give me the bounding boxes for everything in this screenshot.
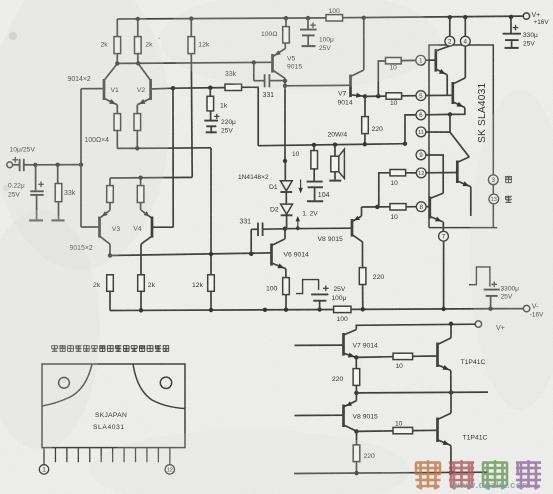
watermark dianqi ziliao [415, 460, 541, 489]
resistor R23 220 [332, 357, 360, 393]
pin 1 circle [416, 55, 436, 65]
scan edge smudges [3, 32, 93, 375]
label 0.22u 25V [8, 182, 25, 198]
wire V8 emitter to 10ohm pins [362, 205, 391, 209]
resistor R1 2k [101, 19, 121, 63]
resistor R9 2k V4 collector [138, 275, 156, 311]
node V5 collector dots [283, 79, 287, 88]
resistor R7 100ohm V4 emitter [137, 178, 144, 211]
transistor V2 9014 [137, 64, 173, 114]
label 10u/25V [10, 147, 36, 154]
node V7 emitter dot [363, 94, 367, 98]
resistor R16 10 to pin5 [386, 93, 416, 107]
transistor Q2 in IC [450, 46, 465, 114]
pin 12 circle [416, 168, 457, 178]
IC package hole right [160, 377, 171, 388]
pin 5 circle [416, 91, 453, 101]
IC package left curve [42, 364, 92, 406]
resistor R22 100 rail [334, 306, 351, 323]
resistor R12 33k feedback [225, 71, 242, 91]
capacitor 331 number2 [240, 218, 286, 254]
node V- rail dots [139, 307, 493, 313]
capacitor C2 0.22u/25V [30, 191, 44, 219]
node collector junction dots [115, 60, 256, 65]
label V+ sub [496, 325, 505, 332]
node 1k tap dot [208, 86, 212, 90]
label 1.2V [302, 211, 318, 218]
resistor R2 2k [135, 19, 160, 63]
node output dots [312, 142, 407, 148]
resistor R18 100 V6 emitter [266, 269, 289, 310]
wire darlington to Q3 [450, 114, 469, 157]
node top rail dots [136, 15, 514, 21]
wire V- rail left [110, 310, 334, 311]
pin 9 circle [416, 150, 443, 193]
wire V6 node to V8 base [285, 227, 352, 230]
pin 13 circle NC [489, 194, 499, 204]
wire V5 node down to D1 [283, 86, 287, 163]
wire 12k down to pnp emitter rail [190, 54, 193, 178]
capacitor 100u/25V bottom [311, 286, 346, 310]
wire V7 emitter to 10ohm pins [365, 94, 386, 98]
resistor R25 220 [353, 431, 375, 473]
wire V2 base feedback run [173, 87, 225, 90]
wire V1V2 collector node [117, 62, 272, 63]
wire V+ sub rail [356, 322, 475, 330]
wire pnp emitter rail [110, 176, 192, 180]
wire bottom rail [294, 470, 488, 475]
label SK SLA4031 vertical [477, 83, 488, 143]
node wire dots [108, 252, 254, 258]
label 20W/4 [328, 131, 348, 138]
transistor Q5 TIP41C top [438, 324, 486, 393]
capacitor 3300u/25V [484, 285, 520, 308]
IC package outline [42, 364, 185, 448]
wire V- rail right [351, 308, 523, 311]
label 9015x2 [70, 245, 93, 252]
resistor R5 100ohm V2 emitter [134, 114, 141, 149]
input terminal J1 [7, 162, 20, 168]
diode D2 [270, 192, 293, 229]
pin 1 package circle [39, 465, 48, 474]
transistor Q1 in IC [436, 46, 450, 96]
node input junction dots [33, 163, 83, 168]
node V2 base dot [171, 86, 175, 90]
transistor V5 9015 [273, 43, 303, 86]
caption chinese text [52, 345, 169, 352]
transistor V1 9014 [81, 64, 119, 114]
IC package right curve [133, 364, 185, 409]
capacitor 10u/25V input [20, 159, 36, 171]
transistor Q4 in IC [430, 193, 444, 231]
wire V2 base to V4 base [172, 88, 174, 227]
resistor R13 100ohm V5 [261, 18, 289, 43]
IC U1 box SLA4031 [429, 45, 497, 228]
transistor V4 9015 [133, 210, 173, 275]
transistor Q3 in IC [457, 157, 471, 216]
transistor V8 9015 upper [318, 207, 363, 268]
wire V+ top rail left [117, 18, 326, 19]
label 100ohm x4 [85, 137, 110, 144]
resistor R20 10 to pin12 [379, 170, 416, 207]
wire mid output [356, 390, 488, 394]
pin 11 circle [416, 127, 450, 137]
resistor 100 series top [326, 8, 343, 21]
capacitor 104 zobel [307, 169, 330, 201]
capacitor 330u/25V [503, 17, 538, 48]
resistor R21 10 to pin8 [390, 204, 416, 221]
transistor V3 9015 [81, 210, 120, 255]
transistor Q6 TIP41C bottom [438, 393, 488, 473]
wire 33k to output node [242, 87, 259, 146]
plus sign 330u [513, 25, 519, 31]
transistor V7 9014 lower [295, 330, 379, 358]
capacitor 100u/25V top [300, 18, 334, 52]
plus sign 100u bottom [323, 286, 329, 292]
resistor R26 10 to TIP41C bottom [357, 420, 438, 433]
resistor R24 10 to TIP41C top [356, 353, 437, 370]
pin 6 circle [405, 110, 450, 144]
wire V3 collector to V6 base [110, 253, 272, 256]
resistor R8 2k V3 collector [93, 275, 113, 311]
annotation arrow up 1.2V [296, 216, 300, 230]
annotation current arrow down [298, 180, 302, 194]
plus sign input cap [12, 157, 18, 163]
wire input vertical to bases [80, 89, 82, 227]
plus sign 220u [214, 114, 219, 119]
capacitor C2 0.22u lead [35, 165, 37, 190]
resistor 33k input [55, 165, 62, 220]
capacitor 331 number1 [254, 63, 285, 100]
transistor V7 9014 driver [338, 18, 366, 107]
pin 4 circle [460, 17, 470, 46]
transistor V8 9015 lower [295, 393, 379, 431]
pulse symbol near 3300u [469, 267, 490, 287]
label 33k input [64, 190, 76, 197]
resistor R19 220 V8 collector [359, 268, 384, 310]
plus sign 100u top [310, 22, 316, 28]
resistor R11 1k [207, 88, 228, 111]
IC package pins [44, 448, 170, 465]
terminal V+ sub [475, 321, 481, 327]
resistor R3 12k [188, 19, 210, 54]
node mid output dot [354, 391, 358, 395]
plus sign 3300u [491, 282, 497, 288]
wire input node [35, 164, 81, 166]
resistor R6 100ohm V3 emitter [107, 178, 114, 210]
label SKJAPAN [95, 412, 127, 419]
wire V5 collector to V7 base [285, 84, 351, 87]
pulse symbol near 100u [296, 280, 319, 294]
transistor V6 9014 [272, 229, 310, 269]
wire V+ top rail right [343, 16, 524, 18]
label kong pin13 [505, 196, 512, 203]
capacitor 220u/25V [204, 111, 236, 135]
pin 12 package circle [165, 465, 174, 474]
node V8b collector dot [354, 429, 358, 433]
pin 8 circle [416, 202, 429, 212]
label SLA4031 package [93, 424, 125, 431]
pin 2 circle [445, 17, 455, 46]
IC package hole left [59, 377, 70, 388]
plus sign 0.22u [38, 182, 44, 188]
resistor R14 220 V7 emitter [362, 96, 383, 144]
resistor R17 10 zobel [292, 145, 318, 169]
resistor R10 12k lower [192, 275, 214, 310]
speaker 20W/4 [329, 145, 344, 181]
pin 3 circle NC [488, 175, 498, 185]
label kong pin3 [505, 176, 512, 183]
resistor R4 100ohm V1 emitter [114, 114, 121, 149]
watermark url [451, 480, 531, 491]
resistor R15 10 to pin1 [378, 58, 416, 97]
wire emitter resistor bottoms [117, 146, 211, 150]
label 9014x2 [68, 76, 91, 83]
terminal V+ +16V [523, 13, 529, 19]
label 1N4148x2 [238, 174, 269, 181]
ground under 0.22u [29, 219, 43, 221]
wire output node [258, 144, 405, 146]
label V- -16V [530, 303, 544, 318]
terminal V- -16V [523, 305, 529, 311]
ground under 33k [52, 219, 65, 221]
label V+ +16V [532, 12, 550, 26]
node V7b emitter dot [354, 355, 358, 359]
diode D1 [269, 161, 292, 192]
node pin6 junction [448, 112, 452, 116]
wire bias node down [210, 148, 212, 275]
pin 7 circle [439, 231, 449, 309]
node V6 collector junction [283, 227, 287, 231]
